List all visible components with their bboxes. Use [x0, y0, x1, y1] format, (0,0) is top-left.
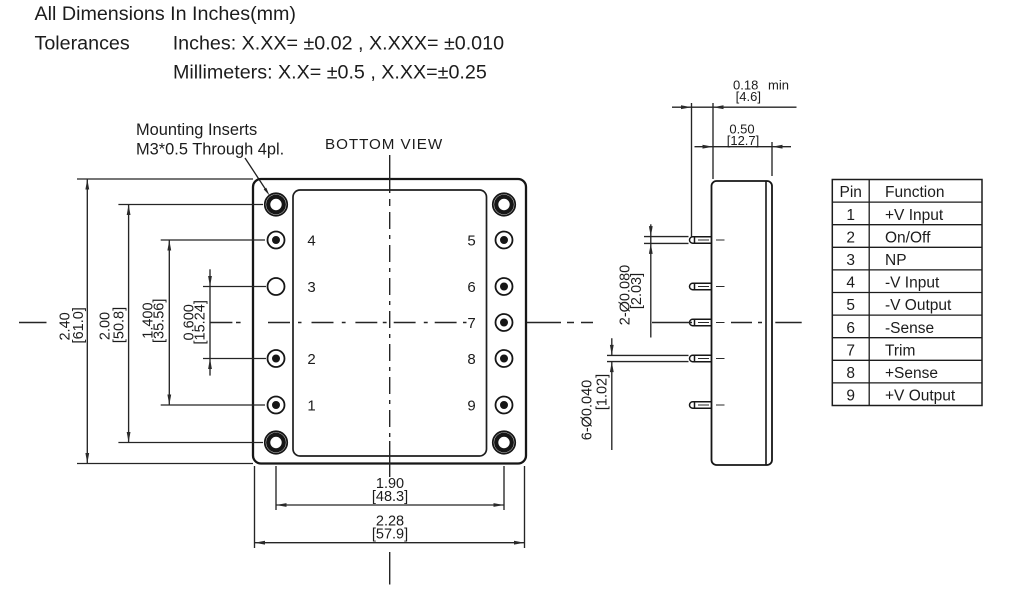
side view: pin row 3/6	[690, 283, 712, 289]
pin 8 pad	[496, 350, 513, 367]
svg-text:Function: Function	[885, 184, 944, 201]
table: pin function table	[832, 180, 982, 406]
svg-text:Mounting Inserts: Mounting Inserts	[136, 121, 257, 139]
pin 4 pad	[268, 232, 285, 249]
svg-text:+V Output: +V Output	[885, 388, 956, 405]
pin 1 pad	[268, 397, 285, 414]
extension lines: below bottom view	[255, 466, 525, 548]
svg-text:On/Off: On/Off	[885, 229, 931, 246]
svg-text:+Sense: +Sense	[885, 365, 938, 382]
svg-text:BOTTOM VIEW: BOTTOM VIEW	[325, 136, 443, 153]
svg-text:-Sense: -Sense	[885, 320, 934, 337]
svg-text:9: 9	[467, 397, 475, 414]
mounting insert: bottom-left	[265, 431, 287, 453]
dimension 1.400 [35.56]	[167, 240, 171, 405]
dimension 1.90 [48.3]	[276, 503, 504, 507]
svg-text:6: 6	[467, 279, 475, 296]
mounting insert: top-right	[493, 193, 515, 215]
svg-text:Millimeters: X.X= ±0.5 , X.XX=: Millimeters: X.X= ±0.5 , X.XX=±0.25	[173, 62, 487, 84]
svg-text:All Dimensions In Inches(mm): All Dimensions In Inches(mm)	[35, 3, 296, 25]
svg-text:9: 9	[846, 388, 855, 405]
side view: body outline	[712, 181, 773, 465]
svg-text:+V Input: +V Input	[885, 207, 944, 224]
svg-text:2: 2	[846, 229, 855, 246]
svg-text:7: 7	[467, 315, 475, 332]
dimension 0.18 min [4.6]	[672, 105, 797, 109]
svg-text:[1.02]: [1.02]	[595, 374, 611, 410]
svg-text:[57.9]: [57.9]	[372, 527, 408, 543]
svg-text:6: 6	[846, 320, 855, 337]
centerline: horizontal through side view	[527, 322, 802, 324]
pin 6 pad	[496, 278, 513, 295]
svg-text:[12.7]: [12.7]	[727, 133, 760, 148]
svg-text:7: 7	[846, 342, 855, 359]
svg-text:Inches: X.XX= ±0.02 , X.XXX= ±: Inches: X.XX= ±0.02 , X.XXX= ±0.010	[173, 33, 504, 55]
pin 5 pad	[496, 232, 513, 249]
leader: mounting inserts arrow	[245, 158, 266, 190]
dimension 2-dia 0.080 [2.03]	[644, 224, 689, 337]
centerline: horizontal (bottom view)	[19, 322, 467, 324]
svg-text:Pin: Pin	[839, 184, 861, 201]
dimension 2.40 [61.0]	[85, 179, 89, 464]
svg-text:[50.8]: [50.8]	[112, 307, 128, 343]
extension lines: left side	[77, 179, 266, 464]
svg-text:min: min	[768, 77, 789, 92]
svg-text:-V Output: -V Output	[885, 297, 952, 314]
mounting insert: bottom-right	[493, 431, 515, 453]
svg-text:1: 1	[307, 397, 315, 414]
svg-text:NP: NP	[885, 252, 907, 269]
svg-text:5: 5	[467, 232, 475, 249]
pin 9 pad	[496, 397, 513, 414]
svg-text:[2.03]: [2.03]	[629, 273, 645, 309]
pin 3 pad (NP, plain hole)	[268, 278, 285, 295]
side view: pin row 2/8	[690, 355, 712, 361]
pin 7 pad	[496, 314, 513, 331]
svg-text:-V Input: -V Input	[885, 275, 940, 292]
svg-text:Trim: Trim	[885, 342, 915, 359]
side view: pin row 7	[690, 319, 712, 325]
svg-text:[4.6]: [4.6]	[736, 89, 761, 104]
pin 2 pad	[268, 350, 285, 367]
svg-text:8: 8	[467, 351, 475, 368]
dimension 6-dia 0.040 [1.02]	[607, 338, 689, 450]
svg-text:8: 8	[846, 365, 855, 382]
svg-text:Tolerances: Tolerances	[35, 33, 130, 55]
svg-text:4: 4	[307, 232, 315, 249]
svg-text:6-Ø0.040: 6-Ø0.040	[580, 380, 596, 440]
svg-text:[15.24]: [15.24]	[193, 300, 209, 344]
mounting insert: top-left	[265, 193, 287, 215]
svg-text:5: 5	[846, 297, 855, 314]
svg-text:[48.3]: [48.3]	[372, 489, 408, 505]
svg-text:[61.0]: [61.0]	[71, 307, 87, 343]
svg-text:3: 3	[846, 252, 855, 269]
side view: baseplate line	[765, 181, 767, 465]
svg-text:2: 2	[307, 351, 315, 368]
dimension 2.28 [57.9]	[255, 541, 525, 545]
dimension 0.50 [12.7]	[695, 145, 792, 149]
side view: pin row 1/9	[690, 402, 712, 408]
svg-text:[35.56]: [35.56]	[152, 299, 168, 343]
svg-text:1: 1	[846, 207, 855, 224]
side view: pin row 4/5	[690, 237, 712, 243]
extension lines: side view top	[692, 103, 773, 237]
dimension 2.00 [50.8]	[127, 205, 131, 443]
svg-text:4: 4	[846, 275, 855, 292]
package: bottom view outer outline	[253, 179, 526, 464]
package: bottom view inner outline	[293, 190, 487, 456]
svg-text:M3*0.5 Through 4pl.: M3*0.5 Through 4pl.	[136, 141, 284, 159]
svg-text:3: 3	[307, 279, 315, 296]
centerline: vertical (bottom view)	[389, 155, 391, 585]
dimension 0.600 [15.24] (outside arrows)	[208, 269, 212, 375]
